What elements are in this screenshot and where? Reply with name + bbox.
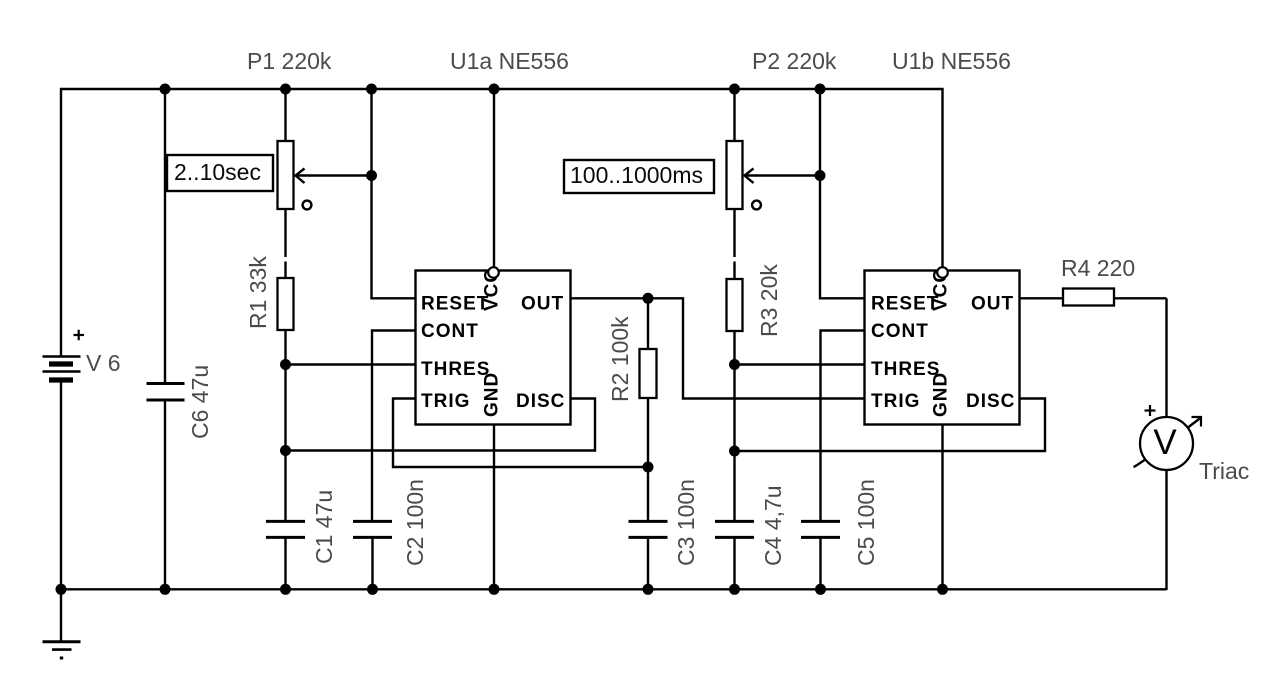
op-amp U1a timer box	[416, 268, 571, 425]
svg-text:V 6: V 6	[86, 350, 121, 376]
svg-text:U1b NE556: U1b NE556	[892, 48, 1011, 74]
svg-text:CONT: CONT	[421, 321, 479, 342]
svg-text:2..10sec: 2..10sec	[174, 159, 261, 185]
svg-text:CONT: CONT	[871, 321, 929, 342]
svg-text:OUT: OUT	[971, 294, 1014, 315]
wire top supply rail	[60, 88, 944, 90]
svg-text:P1 220k: P1 220k	[247, 48, 332, 74]
svg-text:C3 100n: C3 100n	[673, 479, 699, 566]
svg-text:RESET: RESET	[421, 294, 489, 315]
junction dots top rail	[160, 84, 826, 95]
meter V (Triac)	[1134, 405, 1202, 470]
svg-text:THRES: THRES	[421, 359, 490, 380]
pin VCC U1a	[488, 88, 499, 278]
svg-text:U1a NE556: U1a NE556	[450, 48, 569, 74]
resistor R2 100k	[640, 298, 657, 521]
svg-text:OUT: OUT	[521, 294, 564, 315]
svg-text:R4 220: R4 220	[1061, 255, 1135, 281]
resistor R1 33k	[278, 262, 294, 522]
pin GND U1b	[941, 425, 943, 590]
capacitor C3 100n	[629, 521, 668, 589]
ground	[43, 589, 81, 658]
pin VCC U1b	[937, 88, 948, 278]
svg-text:C2 100n: C2 100n	[402, 479, 428, 566]
wire battery to bottom rail	[60, 382, 62, 590]
annotation box 2..10sec	[167, 155, 273, 191]
svg-text:R3 20k: R3 20k	[756, 264, 782, 337]
svg-text:P2 220k: P2 220k	[752, 48, 837, 74]
svg-text:GND: GND	[482, 372, 503, 417]
svg-text:C5 100n: C5 100n	[853, 479, 879, 566]
svg-text:Triac: Triac	[1199, 458, 1249, 484]
svg-text:TRIG: TRIG	[871, 391, 920, 412]
wire meter to bottom rail	[1165, 470, 1167, 590]
wire THRES U1b	[735, 363, 865, 365]
wire left vertical to battery	[60, 88, 62, 356]
capacitor C5 100n	[801, 521, 840, 589]
svg-text:C6 47u: C6 47u	[187, 365, 213, 439]
wire OUT U1b to meter	[1165, 298, 1167, 417]
svg-text:100..1000ms: 100..1000ms	[570, 162, 703, 188]
pin GND U1a	[493, 425, 495, 590]
resistor R4 220	[1020, 289, 1167, 306]
wire DISC U1a return	[286, 399, 596, 451]
battery V6	[43, 330, 85, 380]
svg-text:C4 4,7u: C4 4,7u	[760, 485, 786, 566]
capacitor C6	[147, 88, 185, 589]
wire CONT U1a to C2	[372, 331, 416, 522]
capacitor C2 100n	[353, 521, 392, 589]
svg-text:DISC: DISC	[516, 391, 565, 412]
junction dots bottom rail	[56, 584, 949, 595]
resistor R3 20k	[727, 262, 743, 522]
wire CONT U1b to C5	[821, 331, 865, 522]
wire TRIG U1a return	[393, 399, 648, 468]
svg-text:GND: GND	[931, 372, 952, 417]
wire RESET U1b from top rail	[820, 89, 865, 298]
svg-text:R1 33k: R1 33k	[245, 256, 271, 329]
junction dots mid nodes	[280, 170, 826, 473]
capacitor C4 4,7u	[715, 521, 754, 589]
wire bottom ground rail	[61, 588, 1167, 590]
wire THRES U1a	[286, 363, 416, 365]
svg-text:C1 47u: C1 47u	[311, 490, 337, 564]
wire OUT U1a to TRIG U1b	[571, 298, 865, 398]
annotation box 100..1000ms	[564, 160, 714, 193]
wire DISC U1b return	[735, 399, 1046, 452]
svg-text:DISC: DISC	[966, 391, 1015, 412]
svg-text:RESET: RESET	[871, 294, 939, 315]
potentiometer P2	[727, 88, 821, 257]
op-amp U1b timer box	[865, 268, 1020, 425]
svg-text:V: V	[1153, 423, 1177, 462]
svg-text:R2 100k: R2 100k	[607, 316, 633, 402]
svg-text:TRIG: TRIG	[421, 391, 470, 412]
wire RESET U1a from top rail	[372, 89, 416, 298]
potentiometer P1	[278, 88, 372, 257]
capacitor C1 47u	[266, 521, 305, 589]
